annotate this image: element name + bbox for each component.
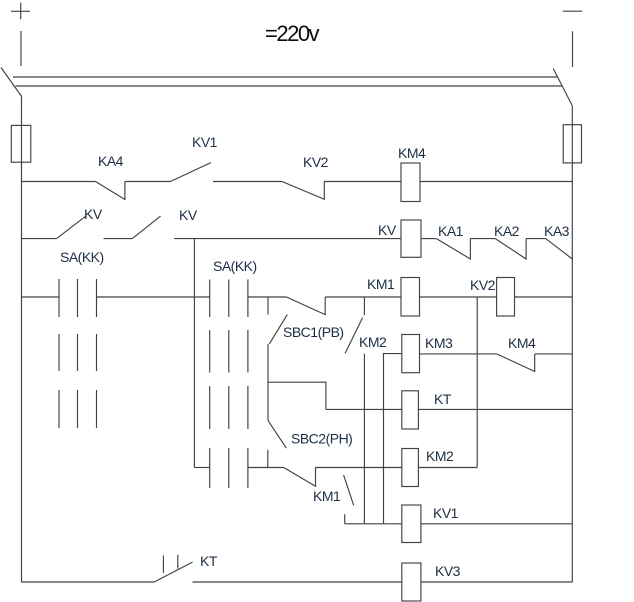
wire row2 left bbox=[22, 238, 57, 240]
wire row3 mid bbox=[97, 296, 210, 298]
svg-text:KV3: KV3 bbox=[435, 563, 461, 579]
wire row8 mid bbox=[193, 581, 402, 583]
switch SA(KK) left level1 plates bbox=[59, 279, 97, 317]
wire plus lead (dash) bbox=[20, 31, 22, 66]
svg-text:=220v: =220v bbox=[265, 21, 320, 46]
svg-text:KT: KT bbox=[200, 553, 218, 569]
node KM1 lower stub bbox=[344, 514, 346, 524]
coil KV1 bbox=[402, 505, 421, 543]
contact KM2 blade bbox=[345, 318, 363, 354]
coil KM2 bbox=[402, 449, 419, 487]
switch SA(KK) left level2 plates bbox=[59, 334, 97, 371]
contact KM4 (NC) bbox=[497, 354, 535, 372]
contact SBC2(PH) blade bbox=[268, 420, 287, 448]
node SBC2 lower stub bbox=[267, 450, 269, 468]
wire row1 d bbox=[420, 181, 572, 183]
wire KT branch step bbox=[268, 382, 326, 409]
svg-text:KV2: KV2 bbox=[303, 154, 329, 170]
wire row4 to rail bbox=[535, 353, 573, 355]
wire row2 a bbox=[104, 238, 133, 240]
svg-text:SA(KK): SA(KK) bbox=[60, 249, 104, 265]
disconnect switch blade right bbox=[553, 69, 572, 106]
node bus vertical right bbox=[476, 297, 478, 468]
contact KA2 (NC) bbox=[495, 239, 526, 259]
svg-text:SBC2(PH): SBC2(PH) bbox=[291, 431, 352, 447]
svg-text:KM4: KM4 bbox=[508, 335, 536, 351]
switch SA(KK) right level2 plates bbox=[210, 330, 248, 373]
wire row6 a bbox=[248, 467, 284, 469]
contact KA4 (NC) bbox=[96, 182, 125, 200]
dc minus terminal bbox=[563, 10, 582, 12]
svg-text:KV: KV bbox=[179, 207, 198, 223]
wire row5 right bbox=[418, 408, 572, 410]
contact KT tick1 bbox=[162, 555, 164, 572]
contact KV (NO blade 2) bbox=[132, 216, 160, 239]
coil KV bbox=[401, 220, 421, 257]
svg-text:KA1: KA1 bbox=[438, 223, 464, 239]
svg-text:KA3: KA3 bbox=[544, 223, 570, 239]
svg-text:KV: KV bbox=[378, 222, 397, 238]
wire row3 left bbox=[22, 296, 60, 298]
svg-text:SA(KK): SA(KK) bbox=[213, 258, 257, 274]
coil KM3 bbox=[402, 335, 420, 373]
dc plus terminal bbox=[11, 3, 30, 20]
left rail bbox=[21, 97, 23, 582]
svg-text:KM2: KM2 bbox=[359, 334, 387, 350]
switch SA(KK) right level3 plates bbox=[210, 386, 248, 429]
disconnect switch blade left bbox=[1, 68, 22, 98]
svg-text:KM3: KM3 bbox=[425, 335, 453, 351]
wire row8 bottom left bbox=[22, 581, 155, 583]
svg-text:KV2: KV2 bbox=[470, 277, 496, 293]
wire row2 b bbox=[174, 238, 401, 240]
wire row1 left bbox=[22, 181, 96, 183]
wire row8 right bbox=[421, 581, 572, 583]
contact KV1 (NO blade) bbox=[170, 163, 211, 182]
contact KA1 (NC) bbox=[436, 239, 470, 259]
wire row6 b bbox=[316, 467, 402, 469]
contact KM1 vertical blade bbox=[344, 475, 354, 505]
wire row3 right of SA bbox=[248, 296, 287, 298]
contact KV2 (NC) bbox=[282, 182, 324, 200]
contact row3 (NC) bbox=[286, 297, 325, 315]
svg-text:KA4: KA4 bbox=[98, 153, 124, 169]
svg-text:KT: KT bbox=[434, 391, 452, 407]
wire row2 d bbox=[470, 238, 495, 240]
wire row3 e bbox=[420, 296, 497, 298]
contact SBC1(PB) blade bbox=[269, 315, 287, 344]
wire row7 left bbox=[345, 523, 402, 525]
wire row7 right bbox=[421, 523, 572, 525]
bus line top bbox=[13, 76, 557, 78]
svg-text:KM1: KM1 bbox=[367, 276, 395, 292]
svg-text:KV1: KV1 bbox=[433, 505, 459, 521]
wire row1 c bbox=[324, 181, 401, 183]
contact KA3 (NC) bbox=[546, 239, 573, 259]
wire bus KM2 contact down bbox=[363, 354, 365, 524]
wire row2 c bbox=[421, 238, 436, 240]
wire row4 right bbox=[420, 353, 497, 355]
wire minus lead (dash) bbox=[572, 31, 574, 67]
contact KT blade bbox=[154, 562, 192, 582]
fuse FU2 bbox=[563, 125, 581, 163]
node bus vertical from row2 bbox=[193, 239, 195, 468]
wire row1 a bbox=[125, 181, 170, 183]
svg-text:KV: KV bbox=[84, 206, 103, 222]
switch SA(KK) right level4 plates bbox=[210, 448, 248, 488]
svg-text:KM4: KM4 bbox=[398, 145, 426, 161]
wire row3 f bbox=[515, 296, 573, 298]
switch SA(KK) left level3 plates bbox=[59, 390, 97, 428]
wire row1 b bbox=[213, 181, 282, 183]
contact KT tick2 bbox=[177, 555, 179, 569]
switch SA(KK) right level1 plates bbox=[210, 280, 248, 318]
wire row6 right bbox=[418, 467, 477, 469]
coil KM1 bbox=[401, 278, 420, 317]
svg-text:KM2: KM2 bbox=[426, 448, 454, 464]
node SBC1 top terminal bbox=[267, 297, 269, 315]
svg-text:KA2: KA2 bbox=[494, 223, 520, 239]
wire row5 to coil bbox=[326, 408, 402, 410]
svg-text:KM1: KM1 bbox=[313, 488, 341, 504]
coil KM4 bbox=[401, 163, 420, 202]
svg-text:SBC1(PB): SBC1(PB) bbox=[283, 324, 344, 340]
wire SBC branch vertical bbox=[267, 344, 269, 420]
bus line bottom bbox=[16, 85, 563, 87]
coil KT bbox=[402, 391, 419, 429]
contact KV (NO blade 1) bbox=[57, 216, 86, 239]
fuse FU1 bbox=[11, 125, 31, 162]
node KM2 contact upper stub bbox=[363, 297, 365, 315]
wire row3 to coil bbox=[325, 296, 401, 298]
svg-text:KV1: KV1 bbox=[192, 134, 218, 150]
coil KV3 bbox=[402, 563, 421, 601]
right rail bbox=[571, 106, 573, 582]
contact KM1 (NC) bbox=[284, 468, 316, 487]
wire row6 from bus bbox=[194, 467, 209, 469]
wire row4 corner to coil bbox=[384, 354, 402, 524]
coil KV2 bbox=[497, 278, 515, 317]
wire row2 e bbox=[526, 238, 546, 240]
